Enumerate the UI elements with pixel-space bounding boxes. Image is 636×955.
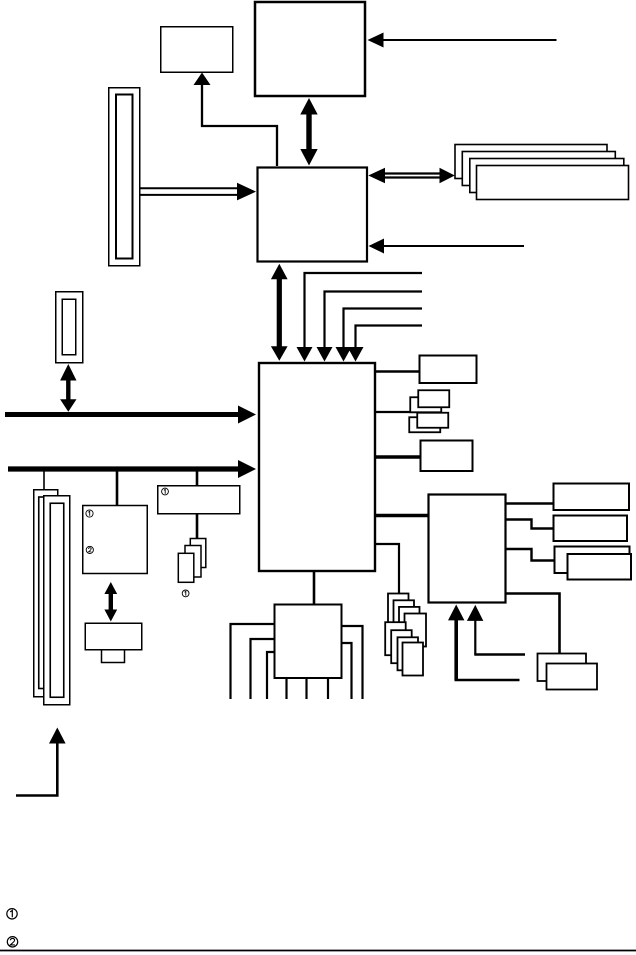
audio pin wire right 1 [342,626,363,699]
wire NB-SB line 1 with arrow [297,273,423,362]
bottom-right box pair [538,654,598,690]
slot AGP [109,88,140,266]
wire bus to PCI slots [43,471,45,490]
glyph circled 1 in game port box [162,488,169,495]
wire super IO to box F [506,520,554,529]
arrow into NB right [369,239,525,254]
wire SB to box D (thick) [376,455,421,459]
audio pin wire left 3 [267,652,274,699]
footnote circled 2 [7,937,17,947]
box A [420,356,477,384]
footnote circled 1 [7,909,17,919]
slot PCI 2 [44,496,70,705]
card stack (3 cards) [178,539,206,583]
bus lower (arrow into SB) [8,460,256,478]
audio pin wire left 1 [231,624,275,699]
box F [554,516,628,542]
box north bridge [258,168,368,262]
box game port (note 1) [158,486,240,514]
wire SB to super IO (thick) [376,514,429,517]
bottom rule [0,950,636,952]
arrow into CPU right [368,33,557,48]
card stack (8 cards) [385,594,426,676]
glyph circled 1 in BIOS box [86,510,93,517]
wire NB-SB line 2 with arrow [317,292,423,362]
USB pair 1 [410,390,449,412]
audio pin wire right 2 [342,643,352,699]
slot AMR [56,292,83,363]
audio pin wire bottom 1 [285,678,287,699]
box CPU [255,2,365,96]
wire NB to clock generator with up arrow [194,73,278,167]
USB pair 2 [409,413,448,433]
box keyboard connector [85,623,142,662]
box D [421,441,473,472]
box clock generator [161,27,233,73]
memory module stack [455,145,629,200]
wire super IO to box G [506,549,555,561]
arrow NB-memory (double line bidirectional) [368,168,455,184]
wire bus to game port box [196,471,199,486]
audio pin wire bottom 3 [327,678,329,699]
arrow AGP to NB (double line) [140,183,256,201]
arrow up toward PCI slots (bottom left) [16,728,66,796]
slot PCI 1 [34,490,58,697]
bus PCI upper (arrow into SB) [5,406,256,424]
wire SB to floppy card stack [376,544,399,593]
wire NB-SB line 4 with arrow [348,326,423,362]
arrow NB-SB (bidirectional) [271,264,288,361]
arrow CPU-NB (bidirectional) [300,98,317,166]
box G pair [555,547,632,580]
arrow AMR-bus (bidirectional) [60,364,76,412]
audio pin wire left 2 [251,639,275,699]
wire bus to BIOS box [116,471,119,506]
box super IO [429,495,506,603]
wire SB to box A [376,370,420,372]
wire NB-SB line 3 with arrow [336,309,423,362]
box E [554,484,630,511]
glyph circled 1 below cards [182,590,189,597]
wire SB to USB group [376,411,418,413]
wire game port box to cards [196,514,199,539]
wire super IO to bottom-right pair [506,594,560,654]
wire super IO to box E [506,502,554,504]
arrow BIOS-keyboard (bidirectional) [104,582,117,622]
arrow up into super IO (thick) [448,605,520,681]
arrow up into super IO (thin) [467,605,525,655]
glyph circled 2 in BIOS box [86,546,93,553]
wire SB to audio box [313,571,316,605]
box BIOS (notes 1,2) [83,506,148,574]
audio pin wire bottom 2 [305,678,307,699]
box audio codec [275,605,342,679]
box south bridge [259,363,375,571]
